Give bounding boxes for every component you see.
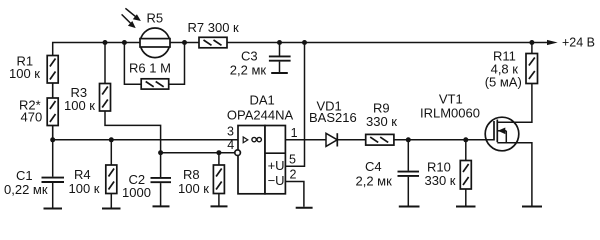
diode VD1 — [326, 133, 337, 146]
ground R4 — [102, 208, 121, 210]
resistor R7 — [199, 37, 227, 48]
ground C3 — [271, 72, 288, 74]
transistor VT1 — [485, 117, 519, 151]
node junction R8 — [216, 150, 221, 155]
svg-text:−U: −U — [268, 173, 285, 188]
resistor R10 — [460, 161, 471, 190]
svg-text:R8: R8 — [183, 167, 200, 182]
wire R8 to ground — [218, 194, 220, 206]
svg-text:C4: C4 — [365, 159, 382, 174]
photoresistor R5 — [140, 28, 170, 58]
node junction +U supply wire — [302, 40, 307, 45]
light arrow 1 — [125, 8, 140, 21]
svg-text:BAS216: BAS216 — [309, 110, 357, 125]
node junction R5 left — [122, 40, 127, 45]
svg-text:R5: R5 — [147, 11, 164, 26]
arrow +24V — [547, 40, 558, 45]
svg-text:IRLM0060: IRLM0060 — [420, 106, 480, 121]
light arrow 2 — [122, 14, 136, 28]
wire R11 to drain — [497, 84, 532, 123]
resistor R8 — [213, 165, 224, 194]
svg-text:R6 1 М: R6 1 М — [129, 61, 171, 76]
resistor R1 — [47, 56, 58, 84]
wire op-amp output pin 1 — [285, 139, 326, 141]
resistor R9 — [366, 134, 394, 145]
node junction R5 right — [182, 40, 187, 45]
svg-text:2: 2 — [290, 168, 297, 182]
svg-text:R4: R4 — [74, 167, 91, 182]
svg-text:100 к: 100 к — [64, 98, 95, 113]
node junction C4 — [406, 137, 411, 142]
svg-text:2,2 мк: 2,2 мк — [356, 174, 393, 189]
wire R8 lead — [218, 153, 220, 165]
svg-text:470: 470 — [21, 110, 43, 125]
resistor R11 — [526, 54, 538, 84]
ground DA1 pin 2 — [296, 207, 313, 209]
wire gate line — [394, 139, 494, 141]
svg-text:(5 мА): (5 мА) — [485, 74, 522, 89]
svg-text:5: 5 — [289, 152, 296, 166]
svg-text:1000: 1000 — [122, 185, 151, 200]
wire R6 branch left — [124, 43, 141, 85]
node junction R2/C1 — [50, 137, 55, 142]
svg-text:100 к: 100 к — [178, 181, 209, 196]
node junction R11 — [529, 40, 534, 45]
wire R10 to ground — [465, 189, 467, 206]
svg-text:2,2 мк: 2,2 мк — [230, 63, 267, 78]
wire pin 2 to ground — [285, 182, 304, 207]
svg-text:1: 1 — [291, 126, 298, 140]
resistor R6 — [141, 79, 169, 89]
wire rail to R3 — [104, 43, 106, 84]
capacitor C3 — [269, 43, 291, 73]
ground C2 — [153, 205, 170, 207]
svg-text:OPA244NA: OPA244NA — [227, 107, 294, 122]
wire inverting input line (pin 4 net) — [161, 152, 235, 154]
wire top supply rail — [53, 43, 548, 140]
svg-text:3: 3 — [227, 124, 234, 138]
op-amp DA1 — [238, 126, 285, 194]
ground R10 — [456, 206, 476, 208]
capacitor C2 — [151, 153, 172, 206]
resistor R3 — [100, 84, 111, 112]
svg-text:R7 300 к: R7 300 к — [188, 20, 240, 35]
wire rail to R11 — [531, 43, 533, 54]
wire R6 branch right — [169, 43, 185, 85]
wire R10 lead — [465, 140, 467, 161]
node junction R3 top — [103, 40, 108, 45]
resistor R2 — [47, 98, 58, 126]
svg-text:100 к: 100 к — [9, 66, 40, 81]
wire diode to R9 — [337, 139, 365, 141]
resistor R4 — [106, 165, 117, 194]
svg-text:0,22 мк: 0,22 мк — [4, 182, 48, 197]
wire R1-R2 — [52, 83, 54, 98]
inversion bubble pin 4 — [235, 150, 241, 156]
svg-text:VT1: VT1 — [439, 91, 463, 106]
svg-text:100 к: 100 к — [69, 181, 100, 196]
svg-text:330 к: 330 к — [366, 114, 397, 129]
node junction R10 — [463, 137, 468, 142]
ground VT1 source — [522, 206, 542, 208]
svg-text:DA1: DA1 — [250, 93, 275, 108]
svg-text:C1: C1 — [16, 168, 33, 183]
wire R3 bottom to inverting line — [105, 111, 161, 153]
svg-text:+U: +U — [268, 158, 285, 173]
svg-text:+24 В: +24 В — [562, 35, 595, 49]
capacitor C4 — [398, 140, 420, 206]
node junction C3 — [277, 40, 282, 45]
wire R2 to node — [52, 126, 54, 140]
op-amp symbol triangle-infinity — [243, 137, 261, 143]
wire noninverting input line (pin 3 net) — [53, 139, 238, 141]
node junction C2 — [158, 150, 163, 155]
wire rail to pin 5 — [285, 43, 304, 167]
svg-text:C3: C3 — [241, 48, 258, 63]
ground R8 — [211, 205, 228, 207]
svg-text:330 к: 330 к — [425, 173, 456, 188]
node junction R4 — [109, 137, 114, 142]
wire R4 lead — [110, 140, 112, 165]
wire source to ground — [497, 143, 532, 206]
wire R4 to ground — [110, 194, 112, 208]
ground C4 — [399, 206, 420, 208]
ground C1 — [44, 208, 63, 210]
svg-text:4: 4 — [227, 138, 234, 152]
capacitor C1 — [42, 140, 65, 208]
